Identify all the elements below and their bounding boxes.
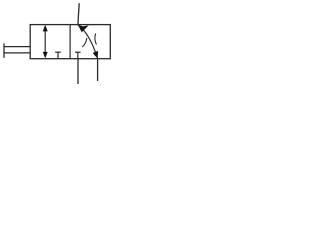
- top pilot line: [78, 3, 79, 24]
- valve body outline (2-position valve V1): [30, 25, 110, 59]
- position divider: [69, 25, 71, 59]
- blocked port T2 (right position): [75, 51, 81, 53]
- restrictor arc left: [82, 38, 87, 47]
- left port line lower: [4, 52, 30, 54]
- left terminal bar: [3, 43, 5, 57]
- restrictor arc right: [95, 34, 97, 45]
- bottom port line P: [77, 59, 79, 84]
- diagonal upper arrowhead: [78, 25, 89, 33]
- bottom port line R: [97, 59, 99, 81]
- flow arrow lower head: [43, 52, 48, 59]
- flow arrow (left position, bidirectional) shaft: [44, 27, 46, 56]
- flow arrow upper head: [43, 25, 48, 32]
- blocked port T1 (left position): [55, 51, 61, 53]
- diagonal flow path (right position) shaft, curved: [78, 25, 98, 58]
- left port line upper: [4, 46, 30, 48]
- diagonal lower arrowhead: [93, 51, 99, 59]
